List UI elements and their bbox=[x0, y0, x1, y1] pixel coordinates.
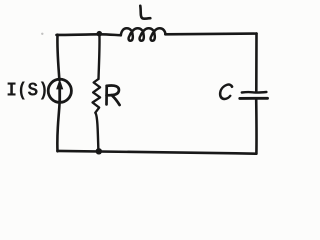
resistor R bottom lead bbox=[96, 113, 99, 151]
capacitor C bottom plate bbox=[240, 97, 268, 100]
resistor R zigzag bbox=[93, 79, 101, 113]
inductor L coil bbox=[121, 28, 166, 41]
current source I(S) circle bbox=[48, 79, 71, 102]
label R bbox=[107, 86, 120, 105]
wire right vertical lower bbox=[255, 99, 258, 153]
wire right vertical upper bbox=[255, 34, 258, 92]
svg-text:I(S): I(S) bbox=[6, 80, 49, 102]
faint scan speck bbox=[41, 33, 43, 35]
label L bbox=[140, 6, 150, 19]
node dot bottom (junction of source/R return) bbox=[96, 148, 102, 154]
wire bottom bbox=[57, 151, 256, 154]
wire top-left segment bbox=[57, 33, 121, 37]
current source arrowhead bbox=[56, 79, 63, 90]
resistor R branch top lead bbox=[99, 34, 100, 79]
capacitor C top plate bbox=[242, 91, 267, 94]
current source arrow shaft bbox=[58, 85, 61, 102]
label C bbox=[219, 85, 232, 99]
wire left vertical bbox=[57, 35, 59, 80]
wire top-right segment bbox=[165, 32, 256, 35]
node dot top (junction of source/R/L) bbox=[97, 31, 103, 37]
